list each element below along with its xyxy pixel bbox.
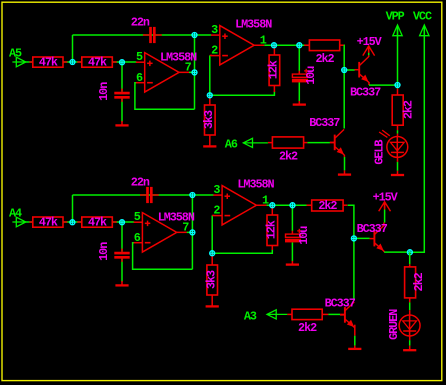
transistor Q1 BC337 upper-right [354, 57, 369, 83]
svg-text:VPP: VPP [386, 10, 405, 24]
transistor Q2 BC337 (A6 driver) [330, 129, 345, 155]
svg-text:A4: A4 [9, 206, 22, 220]
svg-text:2k2: 2k2 [318, 199, 337, 213]
wire lead between 47k ch1 [63, 61, 67, 63]
ground for 10n ch2 [115, 281, 128, 286]
node junction 12k ch2 [270, 202, 276, 208]
svg-text:LM358N: LM358N [160, 50, 197, 64]
svg-text:BC337: BC337 [350, 85, 381, 99]
transistor Q3 emitter link [384, 251, 410, 252]
svg-text:LM358N: LM358N [158, 210, 195, 224]
svg-text:47k: 47k [39, 216, 58, 230]
ground for 10u ch1 [293, 101, 306, 105]
wire ch2: op2 output row [267, 204, 312, 206]
node junction BC337 base column ch2 [351, 236, 357, 242]
capacitor 10u ch1 [292, 66, 318, 85]
svg-text:10n: 10n [97, 242, 111, 261]
wire ch1: 10n branch down [121, 62, 123, 92]
input pin A4 [9, 206, 26, 227]
3k3 top lead ch1 [209, 95, 211, 105]
2k2 A6 left lead [268, 142, 273, 144]
node junction input/feedback ch2 [70, 219, 76, 225]
node junction op1 output ch1 [192, 70, 198, 76]
op-amp first LM358N ch2 [134, 213, 187, 252]
op-amp second LM358N ch2 [213, 186, 266, 225]
svg-text:2k2: 2k2 [402, 100, 416, 119]
svg-text:BC337: BC337 [325, 296, 356, 310]
node junction 10n ch1 [119, 59, 125, 65]
svg-text:47k: 47k [88, 216, 107, 230]
resistor 47k second ch2 [82, 216, 113, 230]
wire ch1: 10u branch down [298, 45, 300, 71]
GELB LED lower lead [397, 157, 399, 170]
pin2 stub ch2 [212, 214, 214, 216]
svg-text:12k: 12k [267, 60, 281, 79]
capacitor 10u ch2 [285, 226, 311, 245]
svg-text:3k3: 3k3 [202, 110, 216, 129]
wire ch1: op1 output to node [189, 71, 195, 73]
svg-text:22n: 22n [131, 16, 150, 30]
ground for GRUEN LED [403, 346, 416, 351]
wire ch2: op1 feedback loop [133, 243, 193, 270]
node junction 10u ch2 [290, 202, 296, 208]
ground for 3k3 ch2 [206, 299, 219, 306]
2k2 GELB top lead [397, 89, 399, 95]
wire ch2: feedback up from first node [72, 195, 74, 222]
wire ch2: input row to op-amp pin5 [26, 221, 134, 223]
node junction feedback row ch1 [192, 32, 198, 38]
resistor 47k second lead ch1 [77, 61, 82, 63]
GRUEN LED lower lead [409, 336, 411, 346]
resistor 47k second ch1 [82, 56, 113, 70]
svg-text:2: 2 [211, 44, 218, 58]
svg-text:10u: 10u [304, 66, 318, 85]
supply +15V arrow ch2 [379, 202, 391, 212]
resistor 47k second lead ch2 [77, 221, 82, 223]
resistor 2k2 A6 base [272, 137, 303, 163]
wire ch1: op2 inverting loop [210, 55, 275, 95]
wire lead between 47k ch2 [63, 221, 67, 223]
wire ch1: op1 feedback loop [135, 83, 195, 110]
3k3 top lead ch2 [211, 253, 213, 265]
svg-text:LM358N: LM358N [235, 17, 272, 31]
LED GRUEN [387, 309, 420, 340]
12k bottom lead ch1 [273, 86, 275, 93]
node junction BC337 base column ch1 [341, 67, 347, 73]
svg-text:2k2: 2k2 [298, 321, 317, 335]
wire ch2: base wire to BC337 upper [354, 237, 370, 239]
input pin A5 [9, 46, 26, 67]
resistor 3k3 ch2 [204, 265, 218, 295]
ground for 10n ch1 [115, 121, 128, 126]
svg-text:2k2: 2k2 [412, 272, 426, 291]
wire ch1: 10u to ground [298, 82, 300, 101]
ground for Q4 emitter [348, 346, 361, 349]
GRUEN chain leads [409, 298, 411, 315]
LED GELB [373, 130, 408, 165]
resistor lead to 10n node ch1 [112, 61, 117, 63]
GELB chain leads [397, 125, 399, 136]
svg-text:1: 1 [262, 193, 269, 207]
wire ch1: 10n to ground [121, 99, 123, 122]
wire ch2: feedback top row through 22n to pin3 [73, 194, 214, 196]
wire ch1: input row to op-amp pin5 [26, 61, 137, 63]
capacitor 22n ch1 [131, 16, 162, 43]
resistor 2k2 A3 base [292, 309, 322, 335]
svg-text:A6: A6 [225, 138, 238, 152]
node junction 10u ch1 [297, 42, 303, 48]
svg-text:A3: A3 [244, 310, 257, 324]
ground for 3k3 ch1 [203, 139, 216, 146]
transistor Q1 collector link [368, 46, 370, 57]
supply VCC rail [410, 26, 424, 252]
node junction 3k3 ch2 [209, 250, 215, 256]
transistor Q2 base network [304, 142, 335, 144]
3k3 lower lead ch2 [211, 295, 213, 299]
node junction 12k ch1 [271, 42, 277, 48]
resistor 47k lead ch2 [29, 221, 33, 223]
resistor 2k2 output ch2 [312, 199, 343, 213]
2k2 GRUEN top leads [409, 252, 411, 267]
resistor 12k ch2 [265, 215, 279, 246]
wire ch2: op2 inverting loop [212, 215, 272, 253]
output pin A6 [225, 138, 268, 152]
wire ch1: node column pin7/pin3 [194, 35, 196, 109]
op-amp first LM358N ch1 [136, 53, 189, 92]
transistor Q1 emitter link [369, 82, 398, 85]
svg-text:3: 3 [211, 23, 218, 37]
wire ch2: node column pin7/pin3 [191, 195, 193, 269]
svg-text:2k2: 2k2 [279, 149, 298, 163]
wire ch1: op2 output row [264, 44, 309, 46]
resistor lead to 10n node ch2 [112, 221, 117, 223]
resistor 47k first ch2 [33, 216, 63, 230]
svg-text:10n: 10n [97, 82, 111, 101]
svg-text:GRUEN: GRUEN [387, 309, 401, 340]
2k2 output lead left ch1 [304, 44, 309, 46]
capacitor 22n ch2 [131, 176, 159, 203]
node junction 10n ch2 [119, 219, 125, 225]
wire ch2: 10n branch down [121, 222, 123, 252]
svg-text:12k: 12k [265, 220, 279, 239]
svg-text:+15V: +15V [373, 191, 399, 205]
wire ch1: feedback top row through 22n to pin3 [73, 34, 212, 36]
transistor Q4 BC337 (A3 driver) [340, 302, 355, 328]
wire ch2: 10u to ground [291, 242, 293, 261]
svg-text:2k2: 2k2 [316, 52, 335, 66]
wire ch1: feedback up from first node [72, 35, 74, 62]
wire ch2: op1 output to node [187, 231, 193, 233]
svg-text:47k: 47k [88, 56, 107, 70]
transistor Q4 base network [322, 313, 345, 315]
resistor 12k ch1 [267, 55, 281, 86]
svg-text:+15V: +15V [357, 35, 383, 49]
node junction VPP/emitter ch1 [395, 82, 401, 88]
ground for Q2 emitter [338, 170, 351, 174]
svg-text:5: 5 [134, 210, 141, 224]
3k3 lower lead ch1 [209, 135, 211, 139]
resistor 2k2 GELB [392, 95, 415, 125]
svg-text:22n: 22n [131, 176, 150, 190]
svg-text:GELB: GELB [373, 140, 387, 165]
svg-text:10u: 10u [297, 226, 311, 245]
pin2 stub ch1 [210, 54, 212, 56]
2k2 output lead right ch1 [340, 44, 344, 46]
node junction op1 output ch2 [190, 230, 196, 236]
wire ch1: base wire to BC337 upper [344, 69, 355, 71]
svg-text:6: 6 [134, 231, 141, 245]
wire ch2: 2k2 output to transistor column [348, 205, 354, 300]
wire ch1: collector column to BC337 lower [343, 128, 345, 130]
svg-text:1: 1 [260, 33, 267, 47]
svg-text:6: 6 [136, 71, 143, 85]
transistor Q3 collector link [383, 202, 386, 226]
resistor 2k2 GRUEN [405, 267, 426, 298]
wire ch2: 10u branch down [291, 205, 293, 231]
svg-text:LM358N: LM358N [237, 177, 274, 191]
transistor Q3 BC337 (+15V lower) [370, 226, 385, 252]
resistor 3k3 ch1 [202, 105, 216, 135]
resistor 47k first ch1 [33, 56, 63, 70]
supply VCC arrow [420, 25, 429, 36]
wire ch2: 10n to ground [121, 259, 123, 282]
capacitor 10n ch2 [97, 242, 130, 262]
svg-text:A5: A5 [9, 46, 22, 60]
transistor Q4 emitter to ground [354, 325, 356, 346]
svg-text:BC337: BC337 [357, 222, 388, 236]
ground for GELB LED [391, 171, 404, 175]
2k2 output lead left ch2 [307, 204, 312, 206]
12k top lead ch1 [273, 45, 275, 55]
supply +15V arrow ch1 [363, 46, 375, 56]
12k top lead ch2 [271, 205, 273, 215]
resistor 47k lead ch1 [29, 61, 33, 63]
svg-text:47k: 47k [39, 56, 58, 70]
wire ch1: 2k2 output to transistor column [343, 45, 345, 128]
12k bottom lead ch2 [271, 246, 273, 250]
supply VPP rail [397, 26, 399, 89]
svg-text:3: 3 [213, 183, 220, 197]
node junction feedback row ch2 [190, 192, 196, 198]
transistor Q2 emitter to ground [343, 155, 345, 171]
2k2 A3 left lead [287, 313, 292, 315]
capacitor 10n ch1 [97, 82, 130, 102]
svg-text:5: 5 [136, 50, 143, 64]
node junction VCC/emitter ch2 [407, 249, 413, 255]
resistor 2k2 output ch1 [309, 40, 339, 66]
op-amp second LM358N ch1 [211, 26, 264, 65]
output pin A3 [244, 310, 287, 324]
svg-text:VCC: VCC [413, 10, 432, 24]
svg-text:2: 2 [213, 204, 220, 218]
2k2 output lead right ch2 [343, 204, 347, 206]
svg-text:BC337: BC337 [309, 116, 340, 130]
svg-text:3k3: 3k3 [204, 270, 218, 289]
node junction 3k3 ch1 [207, 93, 213, 99]
ground for 10u ch2 [286, 261, 299, 265]
node junction input/feedback ch1 [70, 59, 76, 65]
supply VPP arrow [393, 25, 402, 36]
